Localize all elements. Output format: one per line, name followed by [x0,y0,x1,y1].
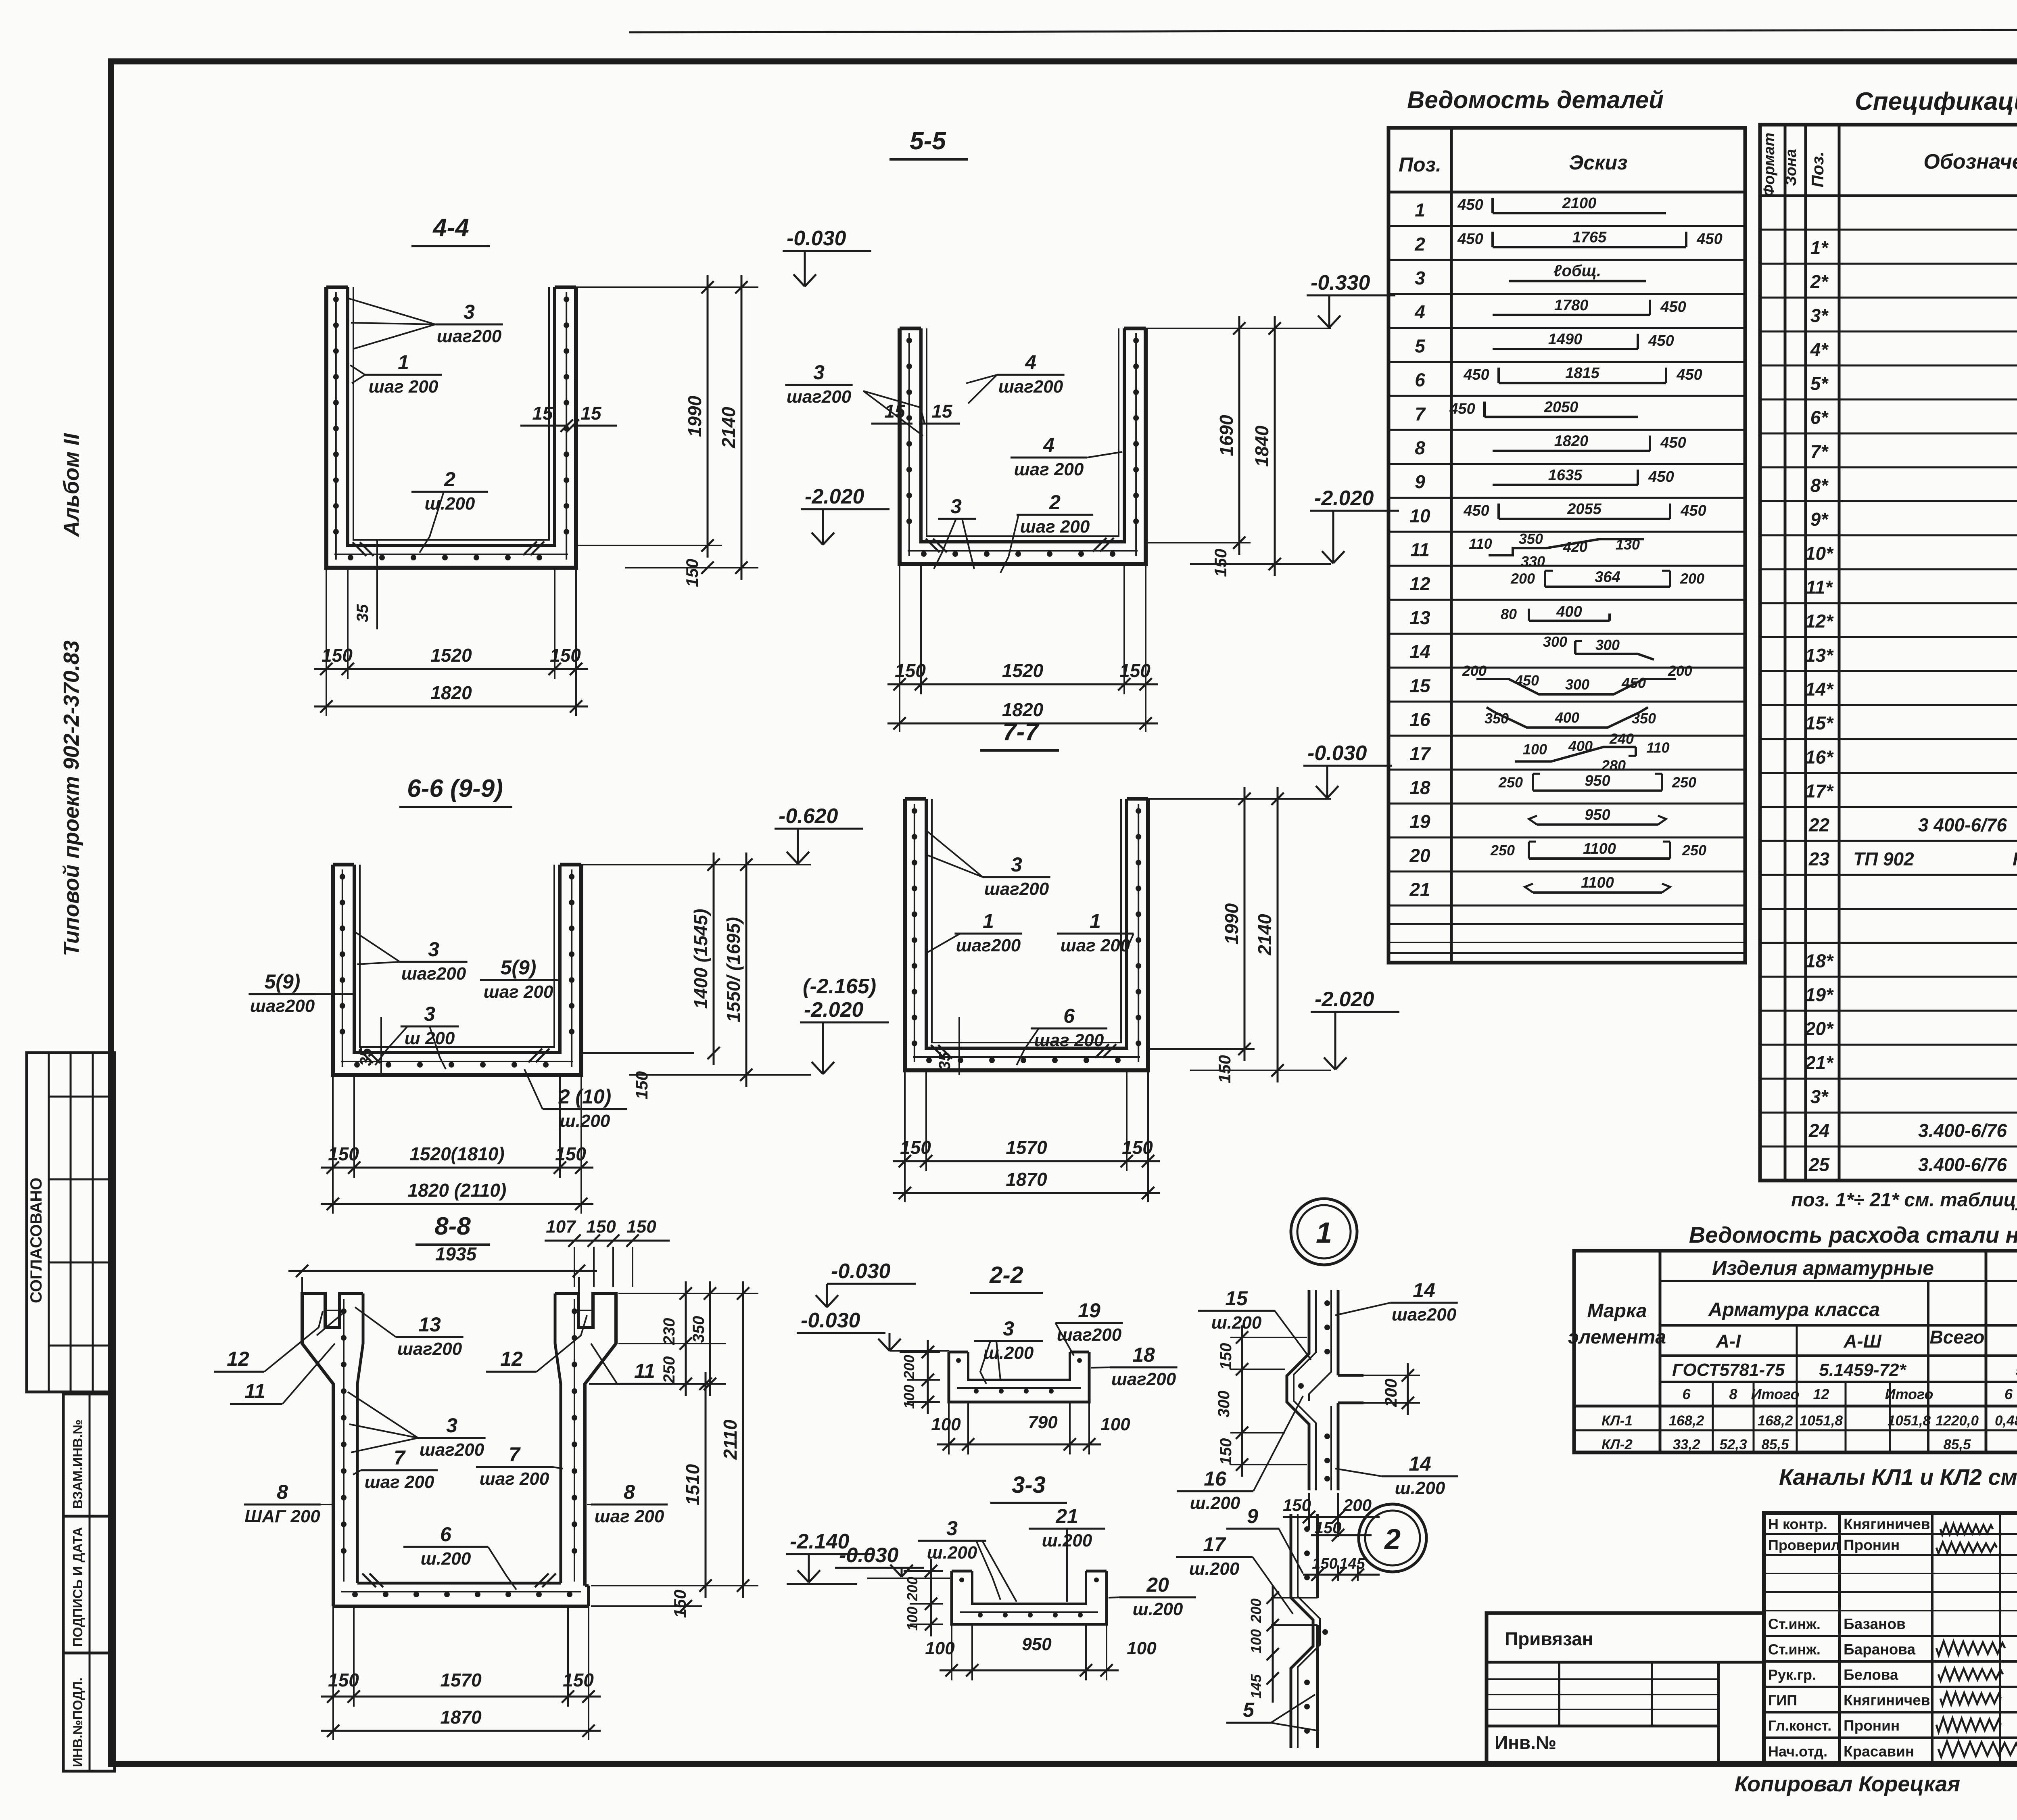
svg-text:2: 2 [444,468,455,491]
svg-text:Рук.гр.: Рук.гр. [1768,1667,1816,1683]
svg-text:1510: 1510 [682,1464,703,1505]
svg-text:150: 150 [670,1590,689,1618]
svg-text:110: 110 [1469,535,1492,552]
svg-text:15: 15 [884,401,906,422]
svg-text:9: 9 [1415,471,1425,492]
svg-text:шаг200: шаг200 [1111,1369,1176,1389]
svg-text:1840: 1840 [1251,425,1272,467]
svg-text:ш.200: ш.200 [1211,1313,1262,1333]
svg-text:250: 250 [660,1356,678,1384]
svg-text:1400 (1545): 1400 (1545) [690,909,711,1009]
svg-text:6-6 (9-9): 6-6 (9-9) [407,775,503,802]
svg-text:330: 330 [1521,553,1545,570]
svg-text:200: 200 [1668,662,1692,679]
svg-text:-2.020: -2.020 [804,998,864,1022]
svg-text:450: 450 [1680,502,1706,519]
svg-text:ш 200: ш 200 [405,1028,455,1048]
svg-text:8: 8 [1729,1386,1737,1402]
svg-text:145: 145 [1248,1674,1264,1699]
svg-text:Гл.конст.: Гл.конст. [1768,1718,1831,1734]
svg-text:шаг200: шаг200 [437,326,502,346]
svg-text:145: 145 [1339,1555,1365,1572]
svg-text:шаг 200: шаг 200 [365,1472,434,1492]
svg-text:1990: 1990 [1221,903,1242,944]
svg-text:1570: 1570 [1006,1137,1047,1158]
svg-text:6: 6 [1682,1386,1691,1402]
svg-text:200: 200 [1381,1379,1400,1407]
svg-text:1990: 1990 [684,395,705,437]
svg-text:200: 200 [1510,570,1535,587]
svg-text:Спецификация каналов КЛ1; К: Спецификация каналов КЛ1; КЛ2 [1855,88,2017,115]
svg-text:364: 364 [1595,568,1620,585]
svg-text:85,5: 85,5 [1761,1437,1789,1452]
svg-text:ш.200: ш.200 [983,1343,1034,1363]
svg-text:12*: 12* [1805,611,1834,632]
svg-text:85,5: 85,5 [1943,1437,1971,1452]
svg-text:9: 9 [1247,1505,1258,1527]
svg-text:150: 150 [1312,1555,1337,1572]
svg-text:8: 8 [624,1481,635,1503]
svg-text:1051,8: 1051,8 [1888,1413,1931,1429]
svg-text:Ведомость расхода стали на эле: Ведомость расхода стали на элемент, кг [1689,1222,2017,1247]
svg-text:6: 6 [440,1523,452,1546]
svg-text:1870: 1870 [1006,1169,1047,1190]
svg-text:35: 35 [357,1048,375,1066]
svg-text:12: 12 [227,1348,249,1370]
svg-text:1820: 1820 [1002,699,1044,720]
svg-text:19: 19 [1409,811,1430,832]
svg-text:450: 450 [1463,502,1489,519]
svg-text:шаг200: шаг200 [250,996,315,1016]
svg-text:шаг 200: шаг 200 [484,982,553,1002]
svg-text:Ведомость деталей: Ведомость деталей [1407,86,1664,113]
svg-text:15: 15 [532,403,553,424]
svg-text:250: 250 [1682,842,1706,859]
svg-text:350: 350 [1519,531,1543,547]
svg-text:150: 150 [1119,660,1150,681]
svg-text:КЛ-1: КЛ-1 [1601,1413,1633,1429]
svg-text:ВЗАМ.ИНВ.№: ВЗАМ.ИНВ.№ [70,1419,85,1509]
svg-text:80: 80 [1501,606,1517,623]
svg-text:150: 150 [586,1217,616,1237]
svg-text:ГОСТ5781-75: ГОСТ5781-75 [1672,1360,1785,1380]
svg-text:5781-75: 5781-75 [2015,1360,2017,1380]
svg-text:107: 107 [546,1217,576,1237]
svg-text:450: 450 [1457,196,1483,213]
svg-text:шаг200: шаг200 [998,377,1063,397]
svg-text:150: 150 [1122,1137,1153,1158]
svg-text:14: 14 [1409,1452,1431,1475]
svg-text:шаг 200: шаг 200 [1061,936,1130,955]
svg-text:400: 400 [1555,709,1579,726]
svg-text:шаг 200: шаг 200 [369,377,438,397]
svg-text:шаг200: шаг200 [984,879,1049,899]
svg-text:Пронин: Пронин [1844,1537,1900,1553]
svg-text:Типовой проект 902-2-370.83: Типовой проект 902-2-370.83 [59,640,84,956]
svg-text:15: 15 [580,403,602,424]
svg-text:1935: 1935 [435,1243,477,1264]
svg-text:1820 (2110): 1820 (2110) [408,1180,507,1201]
svg-text:3: 3 [950,495,962,518]
svg-text:350: 350 [690,1316,708,1343]
svg-text:10: 10 [1409,505,1430,526]
svg-text:шаг200: шаг200 [956,936,1021,955]
svg-text:шаг 200: шаг 200 [1020,517,1090,537]
svg-text:Красавин: Красавин [1844,1743,1914,1760]
svg-text:1520: 1520 [430,645,472,666]
svg-text:21*: 21* [1805,1052,1834,1073]
svg-text:1: 1 [1090,910,1101,932]
svg-text:-0.030: -0.030 [839,1544,899,1567]
svg-text:8: 8 [277,1481,288,1503]
svg-text:Пронин: Пронин [1844,1718,1900,1734]
svg-text:950: 950 [1585,807,1610,823]
svg-text:-0.330: -0.330 [1311,271,1370,295]
svg-text:3: 3 [813,361,825,384]
svg-text:Изделия арматурные: Изделия арматурные [1712,1257,1934,1279]
svg-text:13: 13 [418,1313,441,1336]
svg-text:Баранова: Баранова [1844,1641,1916,1658]
svg-text:400: 400 [1568,738,1593,754]
svg-text:17: 17 [1203,1533,1226,1556]
svg-text:4: 4 [1043,434,1054,456]
svg-text:450: 450 [1648,468,1674,485]
svg-text:Поз.: Поз. [1399,153,1441,176]
svg-text:7*: 7* [1810,441,1829,462]
svg-text:ш.200: ш.200 [927,1543,977,1563]
svg-text:3: 3 [1011,853,1022,876]
svg-text:950: 950 [1585,773,1610,790]
svg-text:19: 19 [1078,1299,1100,1322]
svg-text:2: 2 [1414,234,1425,255]
svg-text:100: 100 [1127,1638,1157,1658]
svg-text:Привязан: Привязан [1505,1628,1593,1649]
svg-text:1550/ (1695): 1550/ (1695) [723,917,744,1022]
svg-text:0,48: 0,48 [1995,1413,2017,1429]
svg-text:14: 14 [1409,641,1430,662]
svg-text:100: 100 [931,1415,961,1434]
svg-text:25: 25 [1808,1154,1830,1175]
svg-text:шаг 200: шаг 200 [480,1469,549,1489]
svg-text:12: 12 [1813,1386,1829,1402]
svg-text:СОГЛАСОВАНО: СОГЛАСОВАНО [27,1178,45,1303]
svg-text:8: 8 [1415,437,1425,458]
svg-text:Проверил: Проверил [1768,1537,1840,1553]
svg-text:150: 150 [1215,1055,1234,1083]
svg-text:21: 21 [1055,1505,1078,1527]
svg-text:18*: 18* [1805,950,1834,971]
svg-text:150: 150 [900,1137,931,1158]
svg-text:-0.030: -0.030 [801,1309,860,1332]
svg-text:3: 3 [1415,267,1425,288]
svg-text:1815: 1815 [1565,365,1599,382]
svg-text:150: 150 [895,660,926,681]
svg-text:21: 21 [1409,879,1430,900]
svg-text:1100: 1100 [1581,874,1614,891]
svg-text:420: 420 [1563,539,1587,555]
svg-text:3: 3 [428,938,439,961]
svg-text:4: 4 [1025,351,1036,374]
svg-text:шаг 200: шаг 200 [1034,1030,1104,1050]
svg-text:1220,0: 1220,0 [1936,1413,1979,1429]
svg-text:450: 450 [1676,366,1702,383]
svg-text:150: 150 [555,1143,586,1164]
svg-text:ГИП: ГИП [1768,1692,1797,1709]
svg-text:20*: 20* [1805,1018,1834,1039]
svg-text:33,2: 33,2 [1672,1437,1700,1452]
svg-text:12: 12 [500,1348,523,1370]
svg-text:18: 18 [1409,777,1430,798]
svg-text:ш.200: ш.200 [1190,1493,1240,1513]
svg-text:11*: 11* [1806,577,1833,598]
svg-text:1490: 1490 [1548,331,1583,348]
svg-text:450: 450 [1514,672,1539,689]
svg-text:2140: 2140 [1254,914,1275,956]
svg-text:5(9): 5(9) [265,970,301,993]
svg-text:790: 790 [1028,1413,1058,1432]
svg-text:2 (10): 2 (10) [558,1085,612,1108]
svg-text:300: 300 [1215,1391,1233,1418]
svg-text:шаг200: шаг200 [401,964,466,984]
svg-text:1100: 1100 [1583,840,1616,857]
svg-text:9*: 9* [1810,509,1829,530]
svg-text:5*: 5* [1810,373,1829,394]
svg-text:ш.200: ш.200 [560,1111,610,1131]
svg-text:ПОДПИСЬ И ДАТА: ПОДПИСЬ И ДАТА [70,1527,85,1647]
svg-text:300: 300 [1595,637,1620,653]
svg-text:150: 150 [626,1217,656,1237]
svg-text:-0.620: -0.620 [779,804,838,828]
svg-text:150: 150 [322,645,353,666]
svg-text:17*: 17* [1805,780,1834,801]
svg-text:Ст.инж.: Ст.инж. [1768,1616,1821,1632]
svg-text:поз. 1*÷ 21* см. таблицу ведом: поз. 1*÷ 21* см. таблицу ведомости детал… [1791,1189,2017,1211]
svg-text:ШАГ 200: ШАГ 200 [244,1507,320,1526]
svg-text:110: 110 [1646,739,1669,756]
svg-text:240: 240 [1609,730,1634,747]
svg-text:450: 450 [1457,230,1483,247]
svg-text:2055: 2055 [1567,501,1601,518]
svg-text:300: 300 [1543,633,1567,650]
svg-text:20: 20 [1409,845,1430,866]
svg-text:3: 3 [1003,1317,1014,1340]
svg-text:2*: 2* [1810,271,1829,292]
svg-text:-0.030: -0.030 [787,227,846,250]
svg-text:3: 3 [946,1517,958,1540]
svg-text:Формат: Формат [1761,133,1778,197]
svg-text:7: 7 [1415,403,1426,424]
svg-text:ℓобщ.: ℓобщ. [1553,262,1601,280]
svg-text:5.1459-72*: 5.1459-72* [1819,1360,1906,1380]
svg-text:18: 18 [1132,1344,1155,1366]
svg-text:350: 350 [1632,710,1656,727]
svg-text:1520(1810): 1520(1810) [409,1143,504,1164]
svg-text:Итого: Итого [1751,1386,1800,1402]
svg-text:шаг200: шаг200 [1392,1305,1457,1325]
svg-text:1: 1 [1316,1217,1332,1249]
svg-text:Зона: Зона [1783,149,1800,186]
svg-text:100: 100 [1523,741,1547,757]
svg-text:Всего: Всего [1930,1327,1985,1348]
svg-text:1635: 1635 [1548,467,1583,484]
svg-text:250: 250 [1498,774,1523,791]
svg-text:шаг200: шаг200 [420,1440,484,1460]
svg-text:1: 1 [1415,200,1425,221]
svg-text:450: 450 [1696,230,1722,247]
svg-text:11: 11 [634,1360,655,1382]
svg-text:10*: 10* [1805,543,1834,564]
svg-text:14*: 14* [1805,679,1834,700]
svg-text:2050: 2050 [1544,399,1579,416]
svg-text:19*: 19* [1805,984,1834,1005]
svg-text:15: 15 [931,401,953,422]
svg-text:5-5: 5-5 [910,127,946,155]
svg-text:17: 17 [1409,743,1431,764]
svg-text:3: 3 [446,1414,457,1437]
svg-text:22: 22 [1808,815,1830,836]
svg-text:200: 200 [904,1577,921,1601]
svg-text:400: 400 [1556,604,1582,621]
svg-text:Каналы КЛ1 и КЛ2 см. лист 7.: Каналы КЛ1 и КЛ2 см. лист 7. [1779,1464,2017,1490]
svg-text:Ст.инж.: Ст.инж. [1768,1641,1821,1658]
svg-text:КЖИ-МН6: КЖИ-МН6 [2013,848,2017,869]
svg-text:8*: 8* [1810,475,1829,496]
svg-text:200: 200 [1248,1599,1264,1623]
svg-text:5: 5 [1243,1699,1255,1721]
svg-text:шаг 200: шаг 200 [595,1507,664,1526]
svg-text:12: 12 [1409,573,1430,594]
svg-text:150: 150 [328,1143,359,1164]
svg-text:3*: 3* [1810,305,1829,326]
svg-text:шаг200: шаг200 [787,387,852,407]
svg-text:3: 3 [424,1003,435,1025]
svg-text:100: 100 [1248,1629,1264,1653]
svg-text:1765: 1765 [1572,229,1607,246]
svg-text:6: 6 [1063,1005,1075,1027]
svg-text:300: 300 [1565,676,1589,693]
svg-text:-0.030: -0.030 [831,1260,891,1283]
svg-text:15: 15 [1409,675,1431,696]
svg-text:Инв.№: Инв.№ [1495,1732,1556,1753]
svg-text:35: 35 [936,1052,954,1070]
svg-text:Белова: Белова [1844,1667,1898,1683]
svg-text:6: 6 [1415,370,1425,391]
svg-text:13: 13 [1409,607,1430,628]
svg-text:168,2: 168,2 [1758,1413,1793,1429]
svg-text:1820: 1820 [1554,433,1589,450]
svg-text:элемента: элемента [1568,1327,1666,1348]
svg-text:А-Ш: А-Ш [1843,1331,1882,1352]
svg-text:Княгиничев: Княгиничев [1844,1692,1930,1709]
svg-text:шаг200: шаг200 [397,1339,462,1359]
svg-text:8-8: 8-8 [434,1212,471,1240]
svg-text:250: 250 [1490,842,1515,859]
svg-text:15*: 15* [1805,713,1834,733]
svg-text:-2.020: -2.020 [1314,487,1374,510]
svg-text:280: 280 [1601,757,1626,773]
svg-text:14: 14 [1413,1279,1435,1302]
svg-text:450: 450 [1660,299,1686,316]
svg-text:3-3: 3-3 [1012,1472,1046,1498]
svg-text:Копировал Корецкая: Копировал Корецкая [1735,1772,1960,1796]
svg-text:130: 130 [1616,536,1640,553]
svg-text:3.400-6/76: 3.400-6/76 [1918,1154,2007,1175]
svg-text:350: 350 [1485,710,1509,727]
svg-text:150: 150 [683,559,702,587]
svg-text:Эскиз: Эскиз [1569,151,1627,174]
svg-text:150: 150 [1211,549,1230,577]
svg-text:(-2.165): (-2.165) [803,975,876,998]
svg-text:11: 11 [244,1380,265,1402]
svg-text:5(9): 5(9) [501,956,537,979]
svg-text:ш.200: ш.200 [425,494,475,514]
svg-text:3*: 3* [1810,1086,1829,1107]
svg-text:1780: 1780 [1554,297,1589,314]
svg-text:1*: 1* [1810,237,1829,258]
svg-text:200: 200 [1462,662,1487,679]
svg-text:1690: 1690 [1216,415,1237,456]
svg-text:250: 250 [1672,774,1696,791]
svg-text:100: 100 [925,1638,955,1658]
svg-text:Княгиничев: Княгиничев [1844,1516,1930,1532]
svg-text:150: 150 [1283,1496,1311,1515]
svg-text:100: 100 [1100,1415,1130,1434]
svg-text:13*: 13* [1805,645,1834,666]
svg-text:168,2: 168,2 [1669,1413,1704,1429]
svg-text:4-4: 4-4 [432,214,469,242]
svg-text:Поз.: Поз. [1808,152,1827,188]
svg-text:450: 450 [1463,366,1489,383]
svg-text:150: 150 [1217,1438,1235,1465]
svg-text:3.400-6/76: 3.400-6/76 [1918,1120,2007,1141]
svg-text:2: 2 [1049,491,1061,514]
svg-text:Обозначение: Обозначение [1923,150,2017,173]
svg-text:16: 16 [1204,1467,1227,1490]
svg-text:4*: 4* [1810,339,1829,360]
svg-text:1051,8: 1051,8 [1800,1413,1843,1429]
svg-text:Н контр.: Н контр. [1768,1516,1827,1532]
svg-text:450: 450 [1621,675,1646,691]
svg-text:5: 5 [1415,335,1426,356]
svg-text:450: 450 [1648,332,1674,349]
svg-text:1: 1 [398,351,409,374]
svg-text:16*: 16* [1805,746,1834,767]
svg-text:23: 23 [1808,848,1830,869]
svg-text:1870: 1870 [440,1707,482,1728]
svg-text:4: 4 [1414,301,1425,322]
svg-text:1820: 1820 [430,682,472,703]
svg-text:1: 1 [983,910,994,932]
svg-text:11: 11 [1410,539,1430,560]
svg-text:200: 200 [1680,570,1704,587]
svg-text:200: 200 [1343,1496,1372,1515]
svg-text:7: 7 [509,1443,521,1466]
svg-text:3 400-6/76: 3 400-6/76 [1918,815,2007,836]
svg-text:2: 2 [1384,1523,1401,1556]
svg-text:1570: 1570 [440,1670,482,1690]
svg-text:950: 950 [1022,1634,1052,1654]
svg-text:-2.020: -2.020 [1315,988,1374,1011]
svg-text:-0.030: -0.030 [1307,742,1367,765]
svg-text:ш.200: ш.200 [421,1549,471,1569]
svg-text:150: 150 [550,645,581,666]
svg-text:16: 16 [1409,709,1430,730]
svg-text:24: 24 [1808,1120,1829,1141]
svg-text:230: 230 [660,1318,678,1346]
svg-text:ИНВ.№ПОДЛ.: ИНВ.№ПОДЛ. [70,1678,85,1767]
svg-text:КЛ-2: КЛ-2 [1601,1437,1633,1452]
svg-text:450: 450 [1660,435,1686,451]
